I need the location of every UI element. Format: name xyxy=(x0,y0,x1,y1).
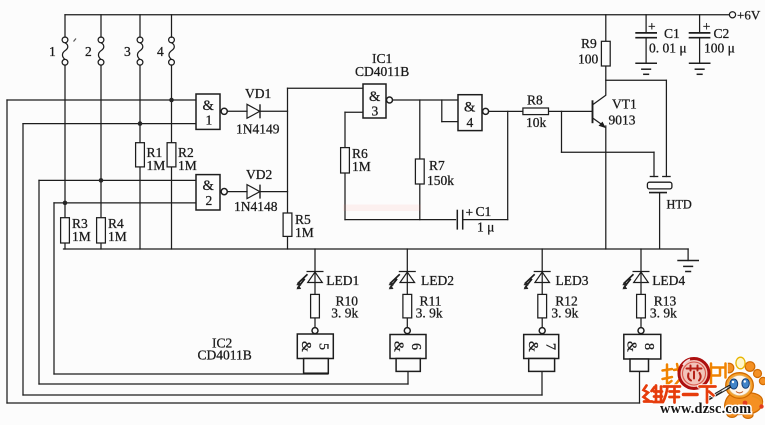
svg-text:+6V: +6V xyxy=(737,8,761,23)
svg-text:2: 2 xyxy=(85,44,92,59)
svg-text:R8: R8 xyxy=(527,93,543,108)
svg-text:3. 9k: 3. 9k xyxy=(331,306,358,321)
svg-text:1M: 1M xyxy=(147,158,166,173)
svg-text:150k: 150k xyxy=(427,173,454,188)
svg-text:0. 01 μ: 0. 01 μ xyxy=(649,41,687,56)
svg-text:R9: R9 xyxy=(581,36,597,51)
svg-text:LED1: LED1 xyxy=(326,273,359,288)
svg-text:VT1: VT1 xyxy=(612,97,637,112)
svg-text:&: & xyxy=(298,341,313,352)
svg-text:HTD: HTD xyxy=(667,198,692,212)
svg-text:6: 6 xyxy=(408,343,423,350)
svg-text:&: & xyxy=(203,178,215,194)
svg-text:9013: 9013 xyxy=(609,113,636,128)
svg-text:7: 7 xyxy=(542,343,557,350)
svg-text:1 μ: 1 μ xyxy=(477,220,494,235)
svg-text:1M: 1M xyxy=(352,159,371,174)
svg-text:1M: 1M xyxy=(295,225,314,240)
svg-text:10k: 10k xyxy=(526,115,547,130)
svg-text:CD4011B: CD4011B xyxy=(198,348,252,363)
svg-text:R7: R7 xyxy=(429,158,445,173)
svg-text:3. 9k: 3. 9k xyxy=(650,306,677,321)
svg-text:1: 1 xyxy=(49,44,56,59)
svg-text:&: & xyxy=(624,341,639,352)
svg-text:VD1: VD1 xyxy=(245,86,271,101)
svg-text:C1: C1 xyxy=(476,204,492,219)
svg-text:1M: 1M xyxy=(72,229,91,244)
svg-text:&: & xyxy=(525,341,540,352)
svg-text:3. 9k: 3. 9k xyxy=(416,306,443,321)
svg-text:1N4149: 1N4149 xyxy=(236,122,280,137)
svg-text:1M: 1M xyxy=(108,229,127,244)
svg-text:&: & xyxy=(391,341,406,352)
svg-text:VD2: VD2 xyxy=(246,167,272,182)
svg-text:C1: C1 xyxy=(664,26,680,41)
svg-text:+: + xyxy=(466,205,474,220)
svg-text:3. 9k: 3. 9k xyxy=(551,306,578,321)
svg-text:100: 100 xyxy=(578,52,599,67)
svg-text:3: 3 xyxy=(124,44,131,59)
svg-text:4: 4 xyxy=(157,44,164,59)
svg-text:100 μ: 100 μ xyxy=(704,41,735,56)
svg-text:5: 5 xyxy=(316,343,331,350)
svg-text:4: 4 xyxy=(467,115,474,130)
svg-text:&: & xyxy=(464,100,476,116)
svg-text:1N4148: 1N4148 xyxy=(234,199,278,214)
svg-text:+: + xyxy=(648,19,656,34)
svg-text:LED2: LED2 xyxy=(421,273,454,288)
svg-text:CD4011B: CD4011B xyxy=(355,64,409,79)
svg-text:1M: 1M xyxy=(178,158,197,173)
svg-text:+: + xyxy=(703,19,711,34)
svg-text:C2: C2 xyxy=(714,26,730,41)
svg-text:www.dzsc.com: www.dzsc.com xyxy=(660,401,751,417)
svg-text:3: 3 xyxy=(372,104,379,119)
svg-text:LED4: LED4 xyxy=(652,273,685,288)
svg-text:LED3: LED3 xyxy=(556,273,589,288)
svg-text:2: 2 xyxy=(206,193,213,208)
svg-text:1: 1 xyxy=(206,113,213,128)
svg-text:8: 8 xyxy=(641,343,656,350)
